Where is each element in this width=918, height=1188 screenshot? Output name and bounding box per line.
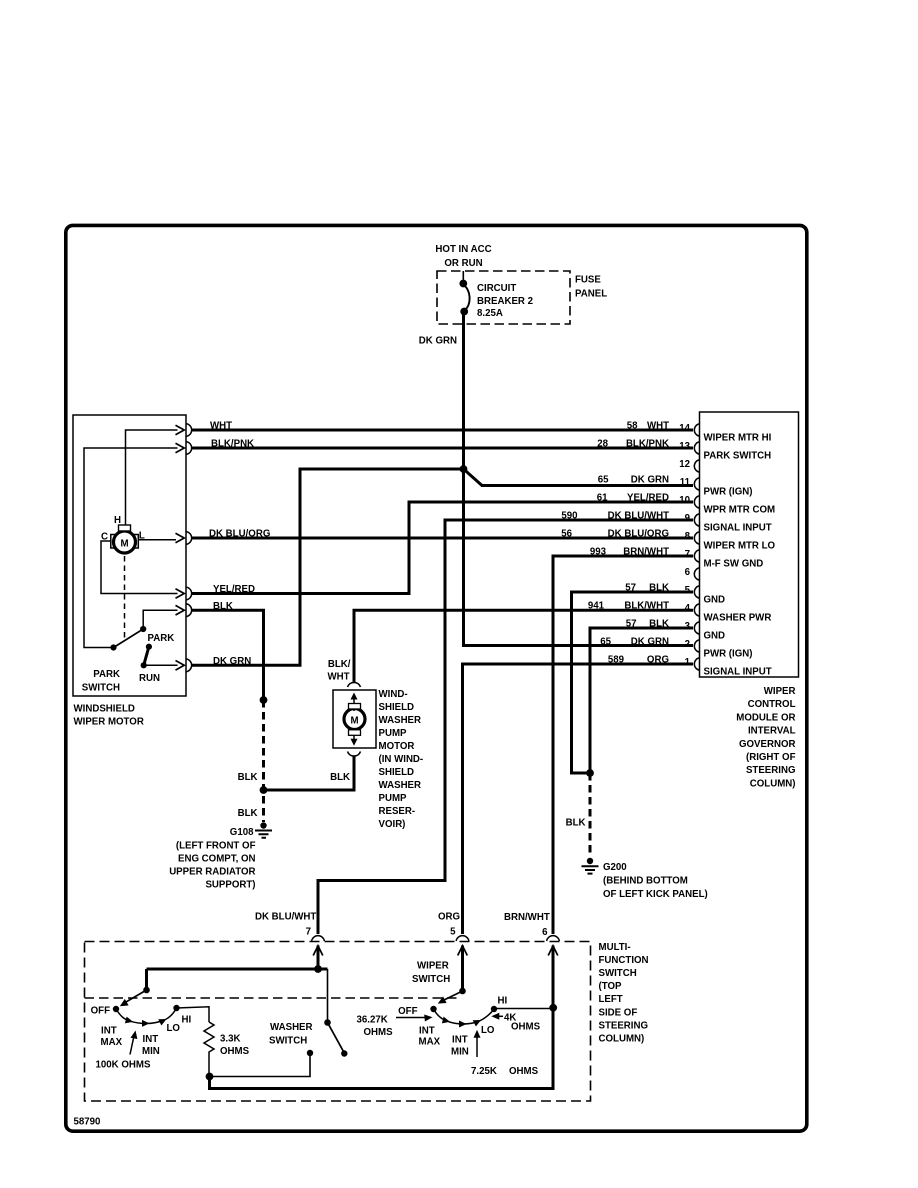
svg-text:GND: GND xyxy=(704,594,726,605)
svg-text:OR RUN: OR RUN xyxy=(444,258,482,269)
washer switch arm xyxy=(328,1023,345,1053)
ground G200 symbol xyxy=(587,858,593,864)
resistor R1 3.3K OHMS xyxy=(204,1022,214,1077)
wire DK GRN branch to pin 11 xyxy=(464,469,694,486)
wire motor H terminal to WHT xyxy=(126,430,178,525)
svg-text:G108: G108 xyxy=(230,827,254,838)
wire HI contact to resistor R1 xyxy=(177,1007,210,1022)
contact LO (wiper switch) xyxy=(473,1020,481,1027)
svg-text:G200: G200 xyxy=(603,862,627,873)
svg-text:MIN: MIN xyxy=(142,1046,160,1057)
wire DK BLU/WHT pin 9 to M-F switch pin 7 xyxy=(318,520,693,934)
svg-text:INT: INT xyxy=(452,1035,468,1046)
svg-text:SIDE OF: SIDE OF xyxy=(599,1007,638,1018)
svg-text:3: 3 xyxy=(685,621,691,632)
svg-text:L: L xyxy=(139,531,145,542)
node M-F switch feed junction xyxy=(314,965,322,973)
svg-text:DK GRN: DK GRN xyxy=(419,336,457,347)
svg-text:SUPPORT): SUPPORT) xyxy=(205,880,255,891)
drawing border frame xyxy=(66,225,807,1131)
wiper motor connector arrows and sockets xyxy=(176,425,185,435)
contact LO (left switch) xyxy=(158,1019,166,1026)
svg-text:14: 14 xyxy=(679,423,690,434)
M-F switch pin sockets xyxy=(312,936,325,941)
multi-function switch dashed box xyxy=(85,942,591,1102)
wire PARK contact to BLK xyxy=(143,610,177,628)
svg-text:UPPER RADIATOR: UPPER RADIATOR xyxy=(169,867,255,878)
svg-text:36.27K: 36.27K xyxy=(357,1015,388,1026)
mechanical link motor to park switch (dashed) xyxy=(124,556,126,641)
svg-text:COLUMN): COLUMN) xyxy=(599,1033,645,1044)
svg-text:6: 6 xyxy=(542,927,548,938)
circuit breaker CB2 arc xyxy=(463,285,469,311)
node DK GRN junction xyxy=(460,465,468,473)
M-F switch pin entry arrows xyxy=(313,946,323,956)
svg-text:BLK: BLK xyxy=(238,808,258,819)
washer switch arm end dot xyxy=(341,1050,347,1056)
svg-text:FUNCTION: FUNCTION xyxy=(599,955,649,966)
svg-text:PUMP: PUMP xyxy=(379,793,408,804)
node BLK splice xyxy=(260,696,268,704)
svg-text:VOIR): VOIR) xyxy=(379,819,406,830)
wire BLK dashed to G200 xyxy=(589,773,592,857)
svg-text:BLK: BLK xyxy=(566,818,586,829)
svg-text:WIPER MOTOR: WIPER MOTOR xyxy=(74,717,144,728)
wire to washer switch pivot xyxy=(327,969,329,1022)
contact INT MAX (wiper switch) xyxy=(442,1017,450,1024)
motor M1 right bracket (L terminal) xyxy=(134,535,139,549)
svg-text:65: 65 xyxy=(598,474,609,485)
svg-text:DK BLU/ORG: DK BLU/ORG xyxy=(209,529,270,540)
wire BLK/WHT pump motor to pin 4 xyxy=(354,610,693,682)
svg-text:DK BLU/ORG: DK BLU/ORG xyxy=(608,528,669,539)
svg-text:BLK: BLK xyxy=(330,772,350,783)
svg-text:8.25A: 8.25A xyxy=(477,308,503,319)
motor M2 bottom tab xyxy=(349,730,361,736)
svg-text:PARK: PARK xyxy=(148,633,175,644)
svg-text:M: M xyxy=(120,539,128,550)
wire BLK pin 3 to G200 junction xyxy=(590,628,693,773)
svg-text:61: 61 xyxy=(597,492,608,503)
node BLK pump junction xyxy=(260,786,268,794)
svg-text:GOVERNOR: GOVERNOR xyxy=(739,739,796,750)
motor M1 left bracket (C terminal) xyxy=(111,535,116,549)
svg-text:57: 57 xyxy=(626,618,637,629)
pointer 100K OHMS xyxy=(130,1035,134,1055)
wire resistor junction to washer contact xyxy=(210,1053,311,1077)
svg-text:WINDSHIELD: WINDSHIELD xyxy=(74,704,135,715)
svg-text:BLK/WHT: BLK/WHT xyxy=(624,600,669,611)
svg-text:ORG: ORG xyxy=(647,654,669,665)
svg-text:PARK SWITCH: PARK SWITCH xyxy=(704,450,772,461)
svg-text:57: 57 xyxy=(625,582,636,593)
wiper switch arm xyxy=(443,991,463,1001)
park switch pivot xyxy=(110,644,116,650)
contact INT MIN (wiper switch) xyxy=(459,1021,467,1028)
wiper switch contact arc xyxy=(434,1009,495,1024)
svg-text:WHT: WHT xyxy=(647,420,669,431)
windshield wiper motor box xyxy=(73,415,186,696)
circuit breaker CB2 top terminal xyxy=(459,280,467,288)
svg-text:BLK: BLK xyxy=(649,582,669,593)
svg-text:(TOP: (TOP xyxy=(599,981,623,992)
washer pump inlet arrow xyxy=(353,695,355,711)
svg-text:WHT: WHT xyxy=(327,672,349,683)
svg-text:BLK/PNK: BLK/PNK xyxy=(626,438,669,449)
wire BLK/PNK motor to pin 13 xyxy=(192,447,693,450)
svg-text:3.3K: 3.3K xyxy=(220,1033,240,1044)
wire motor C terminal to YEL/RED xyxy=(101,541,178,594)
svg-text:WIND-: WIND- xyxy=(379,689,408,700)
svg-text:10: 10 xyxy=(679,495,690,506)
svg-text:MAX: MAX xyxy=(101,1037,123,1048)
svg-text:4: 4 xyxy=(685,603,691,614)
svg-text:PWR (IGN): PWR (IGN) xyxy=(704,486,753,497)
svg-text:WHT: WHT xyxy=(210,421,232,432)
svg-text:993: 993 xyxy=(590,546,607,557)
pointer 7.25K OHMS xyxy=(476,1034,478,1057)
svg-text:STEERING: STEERING xyxy=(599,1020,649,1031)
svg-text:SWITCH: SWITCH xyxy=(82,683,120,694)
svg-text:9: 9 xyxy=(685,513,691,524)
svg-text:BRN/WHT: BRN/WHT xyxy=(623,546,669,557)
intermittent wiper switch arm xyxy=(126,990,147,1002)
ground G108 symbol xyxy=(260,822,266,828)
wire BRN/WHT pin 7 to M-F switch pin 6 xyxy=(553,556,693,934)
wire DK GRN branch to wiper motor xyxy=(192,469,464,665)
svg-text:11: 11 xyxy=(680,477,691,488)
svg-text:(IN WIND-: (IN WIND- xyxy=(379,754,424,765)
washer pump box xyxy=(333,690,376,748)
svg-text:CIRCUIT: CIRCUIT xyxy=(477,283,516,294)
motor M2 washer pump circle xyxy=(344,709,365,730)
park switch RUN position arm xyxy=(144,647,149,666)
svg-text:5: 5 xyxy=(685,585,691,596)
contact HI (wiper switch) xyxy=(491,1006,497,1012)
svg-text:PARK: PARK xyxy=(93,669,120,680)
svg-text:YEL/RED: YEL/RED xyxy=(627,492,669,503)
contact INT MIN (left switch) xyxy=(142,1020,150,1027)
node resistor bottom junction xyxy=(206,1073,214,1081)
svg-text:FUSE: FUSE xyxy=(575,275,601,286)
svg-text:2: 2 xyxy=(685,639,690,650)
svg-text:WASHER: WASHER xyxy=(270,1022,313,1033)
svg-text:7: 7 xyxy=(306,927,311,938)
svg-text:INT: INT xyxy=(419,1025,435,1036)
svg-text:ORG: ORG xyxy=(438,912,460,923)
svg-text:58790: 58790 xyxy=(74,1117,101,1128)
svg-text:(LEFT FRONT OF: (LEFT FRONT OF xyxy=(176,841,256,852)
svg-text:OHMS: OHMS xyxy=(509,1066,539,1077)
svg-text:MOTOR: MOTOR xyxy=(379,741,415,752)
svg-text:65: 65 xyxy=(600,636,611,647)
intermittent wiper switch pivot xyxy=(143,987,150,994)
motor M2 top tab xyxy=(349,704,361,710)
fuse panel dashed box xyxy=(437,271,570,324)
park switch RUN arm top dot xyxy=(146,644,152,650)
svg-text:SIGNAL INPUT: SIGNAL INPUT xyxy=(704,666,772,677)
svg-text:100K OHMS: 100K OHMS xyxy=(96,1059,151,1070)
svg-text:OFF: OFF xyxy=(91,1006,110,1017)
svg-text:WASHER PWR: WASHER PWR xyxy=(704,612,772,623)
svg-text:BLK/: BLK/ xyxy=(328,659,351,670)
wire HI contact to BRN/WHT xyxy=(494,1008,554,1010)
svg-text:WASHER: WASHER xyxy=(379,780,422,791)
svg-text:COLUMN): COLUMN) xyxy=(750,778,796,789)
svg-text:ENG COMPT, ON: ENG COMPT, ON xyxy=(178,854,256,865)
wire DK BLU/ORG motor to pin 8 xyxy=(192,537,693,540)
svg-text:(RIGHT OF: (RIGHT OF xyxy=(746,752,796,763)
svg-text:941: 941 xyxy=(588,600,605,611)
wire DK BLU/WHT inside M-F switch xyxy=(317,946,320,970)
washer switch contact xyxy=(307,1050,313,1056)
svg-text:WASHER: WASHER xyxy=(379,715,422,726)
svg-text:5: 5 xyxy=(450,927,456,938)
circuit breaker CB2 bottom terminal xyxy=(460,308,468,316)
svg-text:PANEL: PANEL xyxy=(575,289,607,300)
svg-text:SHIELD: SHIELD xyxy=(379,702,415,713)
svg-text:WIPER MTR HI: WIPER MTR HI xyxy=(704,432,772,443)
svg-text:CONTROL: CONTROL xyxy=(748,699,796,710)
svg-text:SIGNAL INPUT: SIGNAL INPUT xyxy=(704,522,772,533)
wire park switch pivot to BLK/PNK xyxy=(84,448,178,648)
washer pump outlet arrow xyxy=(353,735,355,742)
svg-text:PWR (IGN): PWR (IGN) xyxy=(704,648,753,659)
wire ORG inside M-F switch to wiper switch pivot xyxy=(461,946,464,992)
svg-text:SWITCH: SWITCH xyxy=(269,1035,307,1046)
svg-text:INT: INT xyxy=(143,1034,159,1045)
washer switch pivot xyxy=(324,1019,331,1026)
wire RUN contact to DK GRN xyxy=(144,664,178,666)
svg-text:OHMS: OHMS xyxy=(511,1022,541,1033)
svg-text:H: H xyxy=(114,515,121,526)
svg-text:BLK: BLK xyxy=(213,601,233,612)
park switch arm to PARK xyxy=(114,629,144,648)
mechanical link dashed line xyxy=(85,997,459,999)
contact HI (left switch) xyxy=(173,1005,179,1011)
pointer 36.27K OHMS xyxy=(396,1017,428,1019)
svg-text:BLK: BLK xyxy=(238,772,258,783)
svg-text:OHMS: OHMS xyxy=(364,1027,394,1038)
connector pin sockets xyxy=(694,424,699,436)
svg-text:INTERVAL: INTERVAL xyxy=(748,726,796,737)
motor M1 top tab (H terminal) xyxy=(119,525,131,531)
svg-text:7: 7 xyxy=(685,549,690,560)
svg-text:28: 28 xyxy=(597,438,608,449)
svg-text:OF LEFT KICK PANEL): OF LEFT KICK PANEL) xyxy=(603,889,708,900)
svg-text:LEFT: LEFT xyxy=(599,994,623,1005)
svg-text:M-F SW GND: M-F SW GND xyxy=(704,558,764,569)
wire BLK pin 5 to G200 junction xyxy=(572,592,694,773)
contact OFF (left switch) xyxy=(113,1006,119,1012)
svg-text:RESER-: RESER- xyxy=(379,806,416,817)
left switch contact arc xyxy=(116,1008,177,1024)
svg-text:BLK: BLK xyxy=(649,618,669,629)
wire fuse feed stub xyxy=(462,271,464,283)
svg-text:6: 6 xyxy=(685,567,691,578)
svg-text:MIN: MIN xyxy=(451,1046,469,1057)
svg-text:HOT IN ACC: HOT IN ACC xyxy=(435,244,491,255)
svg-text:STEERING: STEERING xyxy=(746,765,796,776)
svg-text:M: M xyxy=(350,716,358,727)
svg-text:MULTI-: MULTI- xyxy=(599,942,631,953)
svg-text:590: 590 xyxy=(561,510,577,521)
svg-text:DK BLU/WHT: DK BLU/WHT xyxy=(255,912,316,923)
wire M-F switch feed rail xyxy=(147,968,328,971)
wiper control module connector box xyxy=(700,412,799,677)
svg-text:DK BLU/WHT: DK BLU/WHT xyxy=(608,510,669,521)
svg-text:YEL/RED: YEL/RED xyxy=(213,584,255,595)
svg-text:RUN: RUN xyxy=(139,673,160,684)
wire BLK from motor xyxy=(192,610,264,700)
node BLK G200 junction xyxy=(586,769,594,777)
svg-text:LO: LO xyxy=(167,1023,181,1034)
svg-text:WPR MTR COM: WPR MTR COM xyxy=(704,504,776,515)
wire BRN/WHT inside M-F switch xyxy=(210,946,554,1089)
svg-text:HI: HI xyxy=(498,996,508,1007)
wire YEL/RED motor to pin 10 xyxy=(192,502,693,594)
motor M1 windshield wiper motor circle xyxy=(114,531,136,553)
svg-text:BREAKER 2: BREAKER 2 xyxy=(477,296,533,307)
svg-text:DK GRN: DK GRN xyxy=(631,636,669,647)
park switch RUN arm bottom dot xyxy=(141,662,147,668)
svg-text:WIPER: WIPER xyxy=(417,961,449,972)
svg-text:SHIELD: SHIELD xyxy=(379,767,415,778)
svg-text:SWITCH: SWITCH xyxy=(412,974,450,985)
wire DK GRN trunk from breaker to pin 2 row xyxy=(464,312,694,646)
wiper switch pivot xyxy=(459,988,466,995)
wire WHT motor to pin 14 xyxy=(192,429,693,432)
washer pump top break socket xyxy=(348,682,361,687)
svg-text:BRN/WHT: BRN/WHT xyxy=(504,912,550,923)
svg-text:HI: HI xyxy=(182,1015,192,1026)
svg-text:GND: GND xyxy=(704,630,726,641)
wire BLK pump motor to junction xyxy=(264,756,355,791)
svg-text:WIPER MTR LO: WIPER MTR LO xyxy=(704,540,776,551)
washer pump bottom break socket xyxy=(348,752,361,757)
svg-text:DK GRN: DK GRN xyxy=(213,656,251,667)
svg-text:MODULE OR: MODULE OR xyxy=(736,712,795,723)
contact OFF (wiper switch) xyxy=(430,1006,436,1012)
wire BLK dashed to G108 xyxy=(262,700,265,822)
svg-text:WIPER: WIPER xyxy=(764,686,796,697)
svg-text:13: 13 xyxy=(679,441,690,452)
svg-text:12: 12 xyxy=(679,459,690,470)
svg-text:OHMS: OHMS xyxy=(220,1046,250,1057)
svg-text:INT: INT xyxy=(101,1026,117,1037)
svg-text:LO: LO xyxy=(481,1025,495,1036)
svg-text:7.25K: 7.25K xyxy=(471,1066,497,1077)
svg-text:(BEHIND BOTTOM: (BEHIND BOTTOM xyxy=(603,876,688,887)
park switch PARK contact xyxy=(140,626,146,632)
svg-text:8: 8 xyxy=(685,531,691,542)
svg-text:C: C xyxy=(101,532,108,543)
node HI/BRN-WHT junction xyxy=(549,1004,557,1012)
wire ORG pin 1 to M-F switch pin 5 xyxy=(463,664,694,934)
wire motor L terminal to DK BLU/ORG xyxy=(139,539,177,541)
svg-text:56: 56 xyxy=(561,528,572,539)
svg-text:PUMP: PUMP xyxy=(379,728,408,739)
svg-text:1: 1 xyxy=(685,657,691,668)
svg-text:589: 589 xyxy=(608,654,625,665)
pointer 4K OHMS xyxy=(496,1015,503,1017)
svg-text:DK GRN: DK GRN xyxy=(631,474,669,485)
wire to intermittent switch pivot xyxy=(145,969,148,990)
svg-text:BLK/PNK: BLK/PNK xyxy=(211,439,254,450)
svg-text:OFF: OFF xyxy=(398,1006,417,1017)
svg-text:MAX: MAX xyxy=(419,1037,441,1048)
contact INT MAX (left switch) xyxy=(125,1017,133,1024)
svg-text:58: 58 xyxy=(627,420,638,431)
svg-text:SWITCH: SWITCH xyxy=(599,968,637,979)
